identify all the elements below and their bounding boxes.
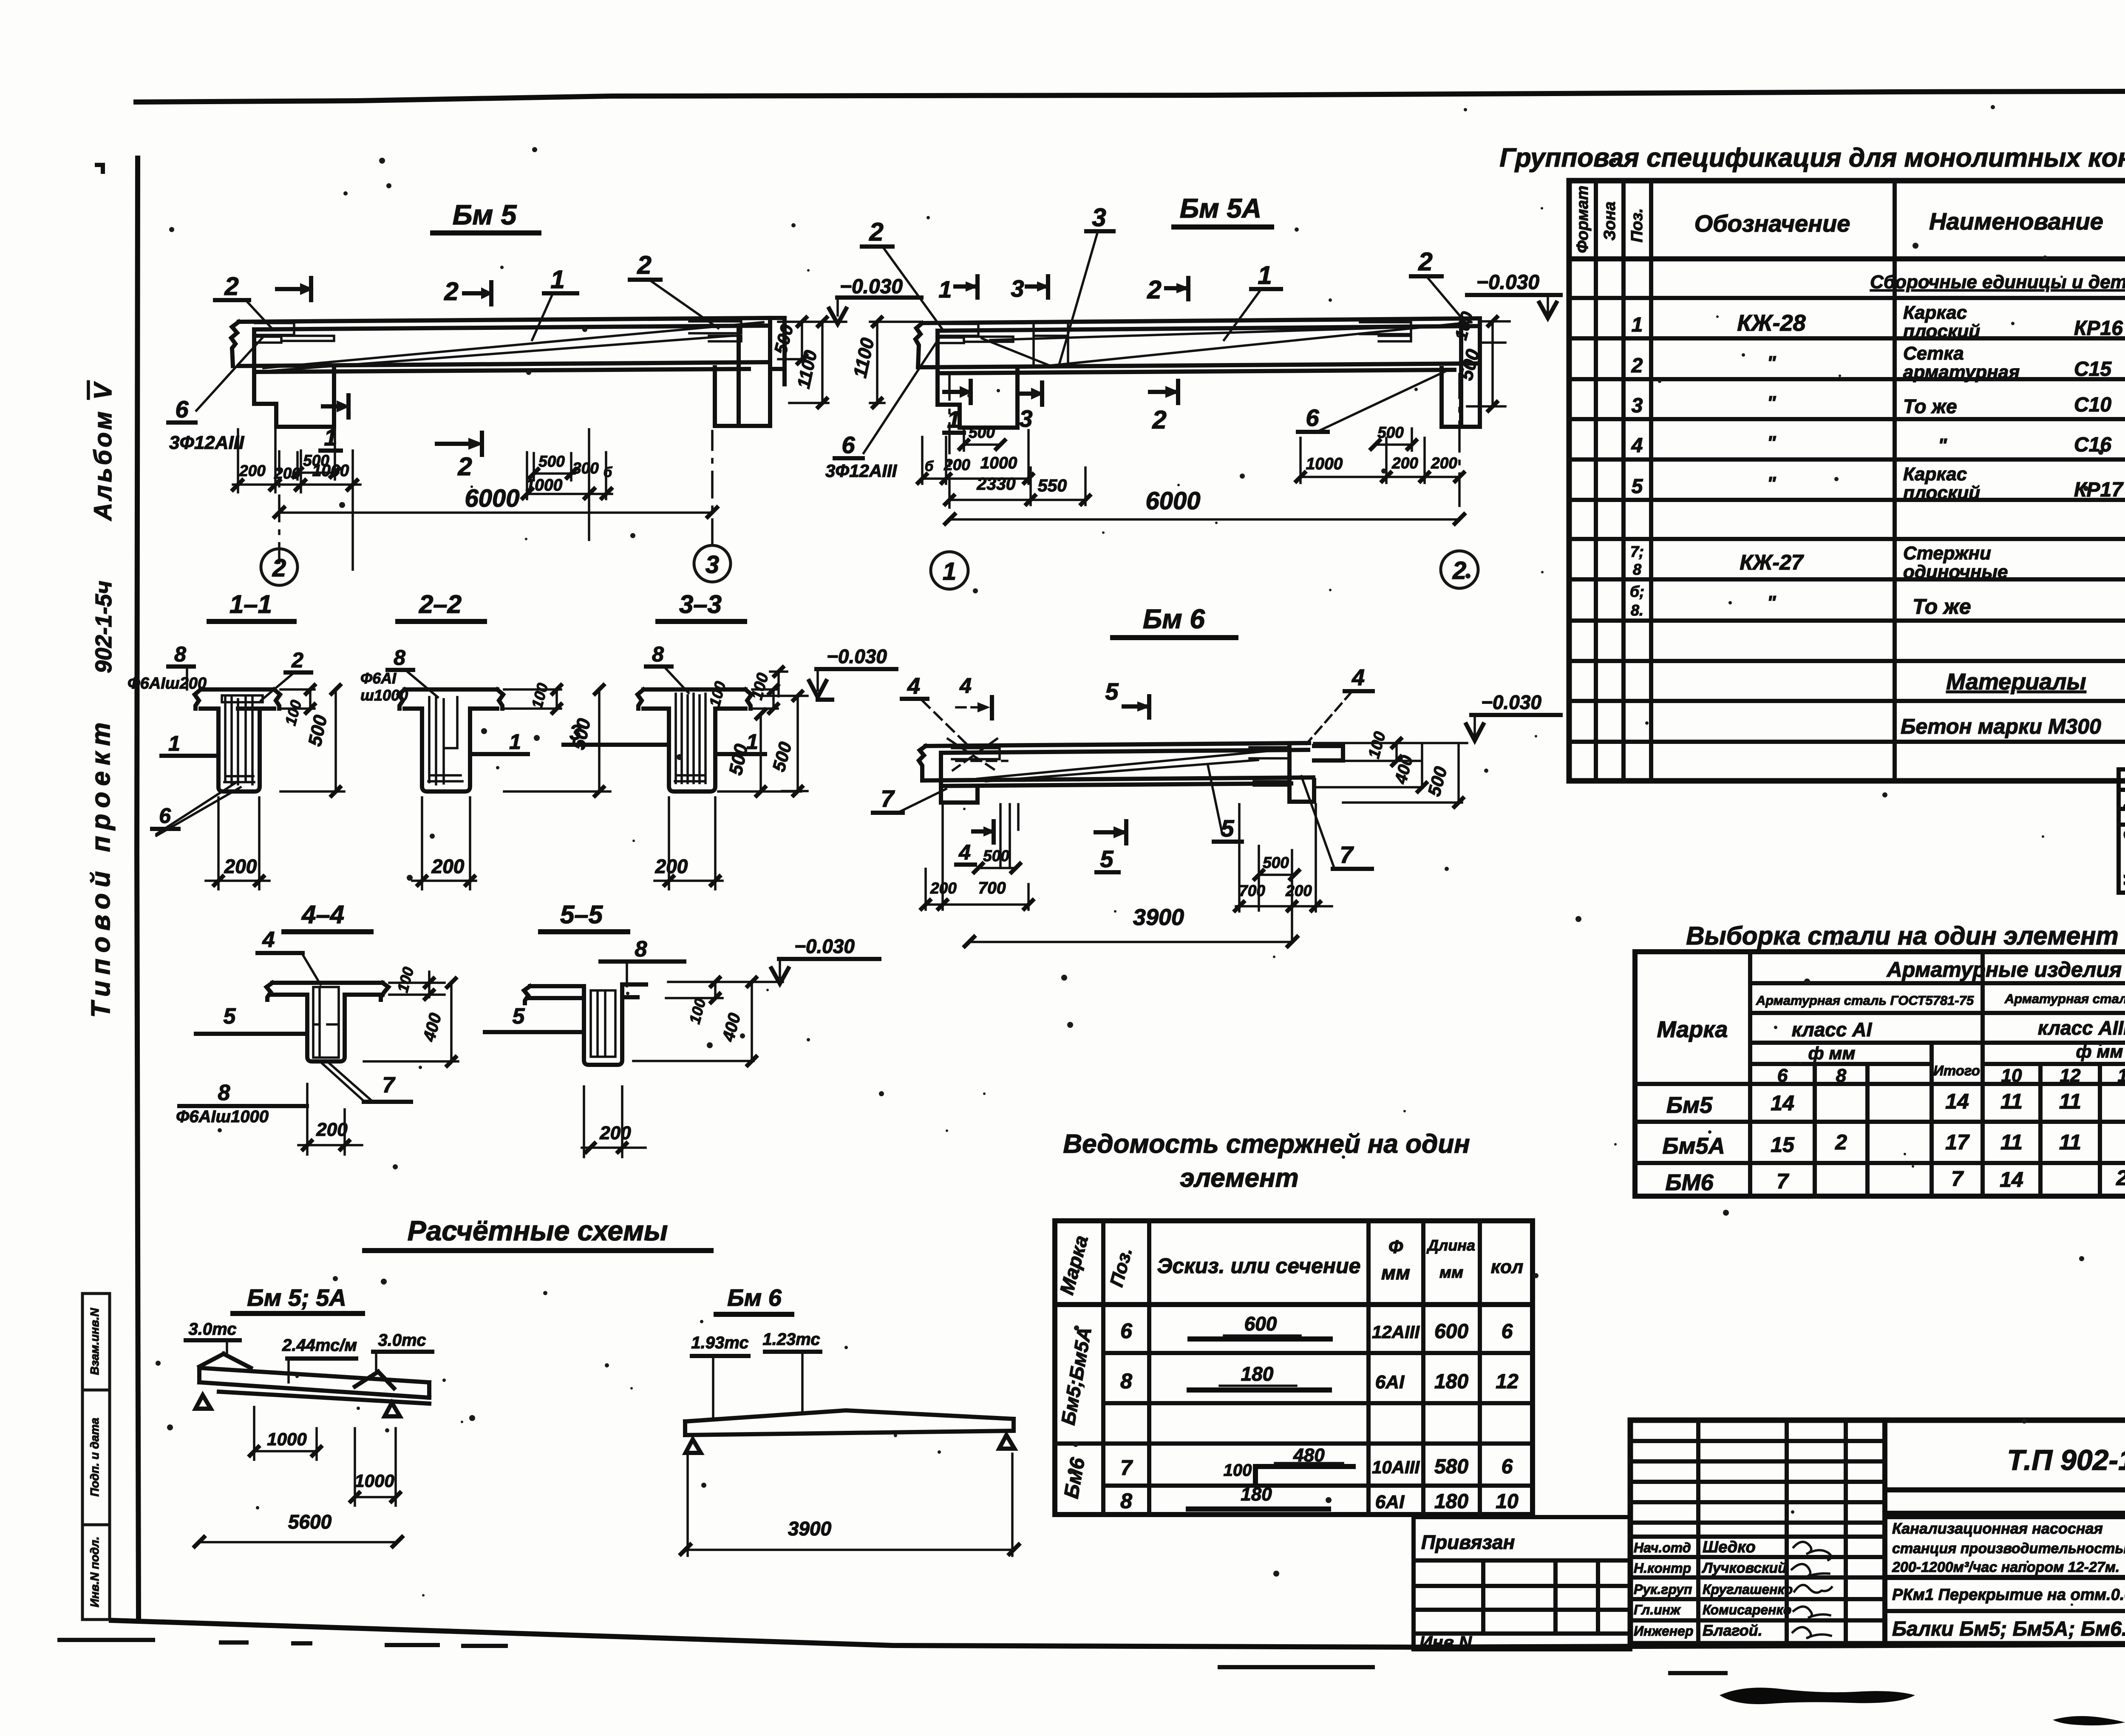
svg-text:100: 100 xyxy=(705,679,729,709)
row 6 xyxy=(1120,1313,1513,1343)
svg-text:4: 4 xyxy=(1631,434,1643,457)
SECTIONS 4-4 5-5 xyxy=(176,900,879,1157)
section arrow 1 bottom xyxy=(944,381,972,433)
row 5 xyxy=(1632,464,2125,503)
svg-text:3900: 3900 xyxy=(788,1518,832,1540)
svg-text:Формат: Формат xyxy=(1574,186,1592,253)
section arrow 2 top-left xyxy=(277,278,314,300)
load 2.44тс/м xyxy=(282,1336,357,1382)
section arrow 5 bottom xyxy=(1096,821,1128,872)
svg-text:3: 3 xyxy=(1019,405,1032,432)
svg-text:С10: С10 xyxy=(2074,394,2111,416)
svg-text:Т.П 902-1- -КЖ: Т.П 902-1- -КЖ xyxy=(2007,1444,2125,1476)
vyborka horizontals xyxy=(1635,983,2125,1163)
BEAM BM6 xyxy=(748,604,1561,946)
privyazan block border xyxy=(1414,1517,1630,1649)
svg-text:Подп. и дата: Подп. и дата xyxy=(88,1418,101,1496)
svg-text:одиночные: одиночные xyxy=(1903,562,2008,582)
svg-text:7: 7 xyxy=(1776,1169,1789,1193)
svg-text:180: 180 xyxy=(1241,1484,1272,1505)
dims 2330 550 xyxy=(945,468,1090,505)
svg-text:8: 8 xyxy=(218,1081,230,1105)
svg-text:6АI: 6АI xyxy=(1375,1372,1405,1393)
svg-text:2: 2 xyxy=(1452,557,1466,584)
svg-text:200: 200 xyxy=(431,855,465,877)
svg-text:5: 5 xyxy=(513,1004,525,1029)
signature row Инженер xyxy=(1634,1622,1831,1639)
MARGIN xyxy=(82,380,117,1620)
vedomost horizontals xyxy=(1055,1302,1533,1307)
BEAM BM5A xyxy=(770,193,1561,589)
section arrow 3 bottom xyxy=(1019,383,1044,432)
rotated dims 100 400 500 right of Бм6 xyxy=(1314,730,1467,807)
svg-text:24: 24 xyxy=(2116,1166,2125,1190)
svg-text:100: 100 xyxy=(1365,730,1389,760)
rebar 1 diagonal Бм5А xyxy=(982,322,1471,366)
beam Бм6 left support xyxy=(941,753,977,803)
spec table row lines xyxy=(1569,298,2125,742)
beam Бм5А right support xyxy=(1442,318,1480,427)
svg-text:8: 8 xyxy=(1633,561,1641,578)
svg-text:Ф6АIш200: Ф6АIш200 xyxy=(127,675,207,692)
callout 7 right xyxy=(1301,776,1372,869)
callout 7 left xyxy=(873,785,946,813)
svg-text:1.23тс: 1.23тс xyxy=(762,1330,820,1349)
svg-text:2: 2 xyxy=(1152,406,1166,434)
section 1-1 rebar xyxy=(224,697,254,784)
svg-text:2: 2 xyxy=(1835,1130,1847,1154)
svg-text:−0.030: −0.030 xyxy=(840,275,903,298)
dims 200 700 left Бм6 xyxy=(921,804,1033,910)
svg-text:8: 8 xyxy=(635,937,647,962)
svg-text:500: 500 xyxy=(1263,854,1289,871)
callout 7 section 4-4 xyxy=(364,1073,411,1102)
row 8 xyxy=(1120,1363,1519,1393)
title Бм5 xyxy=(433,199,539,233)
svg-text:Выборка стали на один эле: Выборка стали на один элемент xyxy=(1686,922,2119,950)
load 3.0тс left xyxy=(186,1320,240,1353)
svg-text:Благой.: Благой. xyxy=(1703,1622,1762,1639)
svg-text:": " xyxy=(1767,473,1776,494)
svg-text:6: 6 xyxy=(1502,1455,1513,1478)
bottom frame line xyxy=(111,1620,2125,1647)
spec table verticals xyxy=(1596,181,2125,781)
dim 200 bottom 3-3 xyxy=(654,797,722,889)
title block outer xyxy=(1630,1420,2125,1644)
section mark 2 top-left xyxy=(215,272,273,329)
svg-text:−0.030: −0.030 xyxy=(1481,691,1541,713)
svg-text:Обозначение: Обозначение xyxy=(1694,210,1850,237)
svg-text:ш1000: ш1000 xyxy=(360,686,408,704)
rebar diagonal Бм6 xyxy=(977,749,1289,781)
svg-text:200: 200 xyxy=(943,456,970,474)
section 1-1 title xyxy=(209,590,294,621)
svg-text:3: 3 xyxy=(1011,275,1024,302)
doc number cell xyxy=(1885,1444,2125,1513)
svg-text:Сборочные единицы и детали: Сборочные единицы и детали xyxy=(1870,272,2125,292)
rotated dim 1100 Бм5 right xyxy=(789,318,828,407)
svg-text:1: 1 xyxy=(168,732,180,755)
svg-text:1: 1 xyxy=(550,265,564,294)
svg-text:Комисаренко: Комисаренко xyxy=(1703,1602,1791,1617)
beam Бм5А top chord xyxy=(922,318,1480,331)
svg-text:2.44тс/м: 2.44тс/м xyxy=(282,1336,357,1355)
svg-text:РКм1 Перекрытие на отм.0.000: РКм1 Перекрытие на отм.0.000 xyxy=(1892,1586,2125,1604)
svg-text:3900: 3900 xyxy=(1133,905,1184,930)
callout 8 Ф6АIш1000 section 4-4 xyxy=(176,1081,307,1126)
svg-text:": " xyxy=(1767,432,1776,453)
svg-text:3Ф12АIII: 3Ф12АIII xyxy=(825,461,898,481)
svg-text:2: 2 xyxy=(224,272,238,301)
svg-text:Лучковский: Лучковский xyxy=(1701,1560,1787,1576)
beam Бм5 right neighbor stub xyxy=(770,318,785,384)
svg-text:100: 100 xyxy=(1224,1461,1252,1480)
svg-text:15: 15 xyxy=(1771,1133,1795,1157)
svg-text:Ф6АI: Ф6АI xyxy=(360,669,397,687)
svg-text:1: 1 xyxy=(1258,261,1272,289)
svg-text:мм: мм xyxy=(1381,1262,1410,1284)
svg-text:Групповая спецификация для мо: Групповая спецификация для монолитных ко… xyxy=(1499,143,2125,173)
beam Бм6 bottom chord xyxy=(926,777,1313,786)
svg-text:Инв.N подл.: Инв.N подл. xyxy=(88,1537,101,1607)
dims 1000 200 200 right xyxy=(1296,438,1464,483)
svg-text:Круглашенко: Круглашенко xyxy=(1703,1582,1793,1597)
svg-text:100: 100 xyxy=(281,698,305,727)
section arrow 2 bottom xyxy=(1150,381,1180,434)
dims б 200 1000 left xyxy=(918,430,1033,484)
grid line 1 xyxy=(931,374,968,589)
svg-text:Бм 6: Бм 6 xyxy=(727,1284,782,1311)
svg-text:2: 2 xyxy=(444,277,458,306)
dim 3900 xyxy=(965,905,1297,946)
level mark -0.030 right xyxy=(1467,271,1561,318)
svg-text:Бм 5А: Бм 5А xyxy=(1180,193,1261,224)
svg-text:11: 11 xyxy=(2000,1089,2023,1113)
vyborka row БМ6 xyxy=(1665,1165,2125,1195)
vedomost outer border xyxy=(1055,1221,1533,1515)
svg-text:5: 5 xyxy=(1100,845,1113,872)
svg-text:": " xyxy=(1767,392,1776,413)
callout 1 top xyxy=(532,265,577,340)
svg-text:Инв.N: Инв.N xyxy=(1419,1632,1473,1652)
svg-text:4: 4 xyxy=(907,673,920,699)
svg-text:200: 200 xyxy=(224,855,257,877)
svg-text:3.0тс: 3.0тс xyxy=(378,1331,426,1350)
svg-text:10: 10 xyxy=(1496,1490,1519,1513)
row 1 xyxy=(1632,302,2125,342)
svg-text:400: 400 xyxy=(719,1011,744,1044)
signature row Нач.отд xyxy=(1634,1538,1831,1560)
svg-text:С16: С16 xyxy=(2074,434,2111,456)
svg-text:100: 100 xyxy=(528,681,551,710)
load 1.23тс xyxy=(762,1330,820,1411)
svg-text:1100: 1100 xyxy=(850,336,878,380)
svg-text:5: 5 xyxy=(1221,815,1234,842)
svg-text:1100: 1100 xyxy=(793,349,821,390)
svg-text:5: 5 xyxy=(1105,678,1119,705)
svg-text:плоский: плоский xyxy=(1903,482,1980,503)
corner hook mark xyxy=(97,165,103,172)
svg-text:2: 2 xyxy=(291,648,303,672)
section arrow 4 top dashed xyxy=(956,674,992,718)
callout 3 top xyxy=(1059,203,1113,365)
svg-text:8.: 8. xyxy=(1631,601,1643,619)
svg-text:8: 8 xyxy=(1836,1065,1847,1086)
svg-text:Сетка: Сетка xyxy=(1903,343,1964,364)
svg-text:БМ6: БМ6 xyxy=(1665,1170,1714,1195)
svg-text:500: 500 xyxy=(770,322,797,356)
dim 500 rotated xyxy=(280,685,344,796)
callout 5 section 5-5 xyxy=(485,1004,584,1032)
marka strip grid xyxy=(2119,769,2125,893)
svg-text:6АI: 6АI xyxy=(1375,1492,1405,1512)
callout 4 top with dashed leader xyxy=(902,673,967,745)
load triangles Бм5 scheme xyxy=(199,1354,394,1388)
svg-text:200: 200 xyxy=(1431,454,1457,472)
svg-text:1: 1 xyxy=(1632,314,1643,336)
svg-text:Альбом V: Альбом V xyxy=(89,380,117,521)
beam Бм5 left break mark xyxy=(231,322,239,366)
scheme beam Бм5 xyxy=(199,1368,429,1404)
spec table outer border xyxy=(1569,181,2125,781)
vyborka row Бм5А xyxy=(1662,1126,2125,1159)
svg-text:2: 2 xyxy=(869,218,883,246)
beam Бм5 bottom chord xyxy=(239,362,770,372)
callout 6 right xyxy=(1298,371,1447,433)
svg-text:класс АI: класс АI xyxy=(1792,1018,1873,1041)
dim 500 right xyxy=(530,453,575,480)
beam Бм5А left break xyxy=(915,323,922,367)
title Бм5А xyxy=(1174,193,1272,227)
svg-text:7: 7 xyxy=(881,785,895,812)
svg-text:Бм 5; 5А: Бм 5; 5А xyxy=(247,1284,346,1311)
beam Бм6 top chord xyxy=(926,743,1309,753)
svg-text:Бм 5: Бм 5 xyxy=(453,199,517,230)
svg-text:180: 180 xyxy=(1434,1370,1468,1393)
svg-text:Ф6АIш1000: Ф6АIш1000 xyxy=(176,1107,269,1126)
BEAM BM5 xyxy=(168,199,785,585)
beam Бм5А mesh zone С10 xyxy=(1034,322,1068,367)
svg-text:Арматурные изделия: Арматурные изделия xyxy=(1886,958,2122,981)
dim 500 left Бм6 xyxy=(974,847,1020,872)
callout 2 top-left xyxy=(862,218,943,331)
dim 6000 Бм5А xyxy=(945,487,1464,524)
row 7-8 xyxy=(1630,539,2125,582)
svg-text:300: 300 xyxy=(572,460,599,477)
beam Бм5 right anchor plate xyxy=(689,321,741,341)
project name cell xyxy=(1885,1517,2125,1575)
svg-text:Расчётные схемы: Расчётные схемы xyxy=(408,1215,668,1246)
load 3.0тс right xyxy=(373,1331,432,1371)
signature row Рук.груп xyxy=(1634,1582,1832,1597)
svg-text:Марка: Марка xyxy=(1055,1233,1092,1297)
section 2-2 web xyxy=(422,709,470,791)
callout 8 section 3-3 xyxy=(646,642,688,693)
svg-text:−0.030: −0.030 xyxy=(827,645,887,667)
svg-text:902-1-5ч: 902-1-5ч xyxy=(91,581,116,673)
witness lines left support xyxy=(1000,804,1018,868)
dim 500 rotated 3-3 xyxy=(718,710,801,796)
beam Бм6 left break xyxy=(919,746,926,780)
left frame line xyxy=(137,158,139,1620)
svg-text:2: 2 xyxy=(457,452,472,481)
callout 1 section 2-2 xyxy=(470,730,528,754)
svg-text:Эскиз. или сечение: Эскиз. или сечение xyxy=(1157,1254,1361,1278)
dim 100 rotated xyxy=(280,685,314,727)
dim 500 small left xyxy=(960,424,1005,451)
svg-text:2: 2 xyxy=(1147,275,1161,304)
svg-text:2: 2 xyxy=(1418,247,1432,276)
section 2-2 title xyxy=(398,590,484,621)
svg-text:5: 5 xyxy=(224,1004,236,1029)
svg-text:Рук.груп: Рук.груп xyxy=(1634,1582,1692,1597)
svg-text:": " xyxy=(1938,435,1947,456)
vedomost verticals xyxy=(1103,1221,1480,1515)
svg-text:12: 12 xyxy=(1496,1370,1519,1393)
svg-text:11: 11 xyxy=(2059,1089,2081,1113)
svg-text:180: 180 xyxy=(1241,1363,1274,1385)
svg-text:С15: С15 xyxy=(2074,358,2112,380)
callout 1 top right xyxy=(1224,261,1281,340)
svg-text:Арматурная сталь ГОСТ5781-75: Арматурная сталь ГОСТ5781-75 xyxy=(1756,993,1974,1008)
row 8b xyxy=(1120,1484,1519,1513)
svg-text:500: 500 xyxy=(983,847,1009,865)
svg-text:7: 7 xyxy=(1951,1167,1964,1191)
svg-text:8: 8 xyxy=(1120,1369,1132,1393)
privyazan block grid xyxy=(1414,1560,1630,1634)
svg-text:станция производительностью: станция производительностью xyxy=(1892,1540,2125,1557)
svg-text:Бм 6: Бм 6 xyxy=(1143,604,1205,634)
section 3-3 flange xyxy=(637,689,751,709)
svg-text:6000: 6000 xyxy=(1145,487,1200,515)
beam Бм6 left anchor + dashed cuts xyxy=(952,748,1000,759)
dim 6000 xyxy=(275,485,717,517)
svg-text:3: 3 xyxy=(705,551,719,579)
title block left grid columns xyxy=(1698,1420,1846,1642)
svg-text:Н.контр: Н.контр xyxy=(1634,1560,1691,1576)
svg-text:1: 1 xyxy=(509,730,521,754)
dim 1000 right scheme xyxy=(351,1428,400,1506)
callout 6 3Ф12АIII xyxy=(168,338,263,453)
svg-text:6: 6 xyxy=(1502,1320,1513,1343)
SPEC TABLE xyxy=(1499,143,2125,781)
dim 100 rotated 2-2 xyxy=(504,681,561,713)
svg-text:Арматурная сталь ГОСТ5.1459-72: Арматурная сталь ГОСТ5.1459-72* xyxy=(2004,991,2125,1006)
ink smudge small xyxy=(2053,1716,2125,1725)
section 5-5 web xyxy=(584,984,622,1065)
rotated dim 1100 Бм5А left xyxy=(850,318,922,407)
svg-text:500: 500 xyxy=(538,453,565,470)
svg-text:500: 500 xyxy=(1377,424,1404,441)
svg-text:11: 11 xyxy=(2000,1130,2023,1154)
svg-text:14: 14 xyxy=(1945,1089,1969,1113)
stamp box Инв.N подл. xyxy=(82,1525,110,1620)
svg-text:Бм5: Бм5 xyxy=(1666,1092,1713,1118)
svg-text:14: 14 xyxy=(2000,1168,2023,1191)
svg-text:400: 400 xyxy=(419,1011,445,1044)
svg-text:Ф: Ф xyxy=(1388,1237,1403,1257)
svg-text:": " xyxy=(1767,352,1776,373)
dims 200 200 1000 left xyxy=(233,429,360,570)
beam Бм6 right anchor plate xyxy=(1249,747,1289,786)
section 3-3 rebar dense xyxy=(675,694,705,783)
signature row Н.контр xyxy=(1634,1560,1829,1577)
svg-text:Ведомость стержней на один: Ведомость стержней на один xyxy=(1063,1129,1470,1159)
svg-text:3.0тс: 3.0тс xyxy=(189,1320,237,1339)
svg-text:500: 500 xyxy=(768,740,796,774)
object name cells xyxy=(1885,1577,2125,1640)
svg-text:Каркас: Каркас xyxy=(1903,464,1967,485)
svg-text:Шедко: Шедко xyxy=(1703,1538,1756,1556)
MARKA STRIP xyxy=(2119,769,2125,893)
svg-text:класс АIII: класс АIII xyxy=(2038,1017,2125,1039)
svg-text:3: 3 xyxy=(1632,394,1643,417)
svg-text:Бм6: Бм6 xyxy=(1060,1456,1089,1500)
svg-text:Привязан: Привязан xyxy=(1421,1531,1515,1553)
callout 5 right xyxy=(1208,765,1242,842)
callout 2 far right xyxy=(1411,247,1465,321)
svg-text:200: 200 xyxy=(655,855,688,877)
svg-text:7;: 7; xyxy=(1630,543,1644,560)
section arrow 3 top xyxy=(1011,275,1050,302)
svg-text:1.93тс: 1.93тс xyxy=(691,1333,748,1352)
svg-text:6: 6 xyxy=(1777,1065,1788,1086)
svg-text:Наименование: Наименование xyxy=(1929,208,2103,235)
callout 1 section 3-3 xyxy=(715,730,765,754)
svg-text:мм: мм xyxy=(1439,1264,1463,1282)
callout 3 section 3-3 xyxy=(564,720,669,745)
rebar 1 diagonal xyxy=(263,322,763,371)
svg-text:Нач.отд: Нач.отд xyxy=(1634,1540,1691,1555)
svg-text:Бм5;Бм5А: Бм5;Бм5А xyxy=(1057,1325,1096,1427)
callout 8 section 2-2 xyxy=(360,646,438,704)
VYBORKA TABLE xyxy=(1635,922,2125,1196)
svg-text:10: 10 xyxy=(2001,1065,2022,1086)
grid line 2 right xyxy=(1441,374,1478,588)
grid line 2 xyxy=(261,451,297,585)
vyborka outer border xyxy=(1635,952,2125,1196)
svg-text:4–4: 4–4 xyxy=(301,900,344,929)
section 1-1 web xyxy=(218,709,260,791)
supports Бм6 scheme xyxy=(686,1435,1014,1453)
svg-text:Балки Бм5; Бм5А; Бм6.: Балки Бм5; Бм5А; Бм6. xyxy=(1892,1618,2125,1640)
svg-text:Поз.: Поз. xyxy=(1628,208,1646,243)
svg-text:500: 500 xyxy=(725,742,752,777)
row 4 xyxy=(1631,432,2125,457)
svg-text:КР17: КР17 xyxy=(2074,479,2124,501)
svg-text:4: 4 xyxy=(262,928,275,952)
svg-text:100: 100 xyxy=(686,996,709,1026)
beam Бм6 right support xyxy=(1289,747,1314,802)
svg-text:кол: кол xyxy=(1491,1257,1524,1277)
dim 500 left xyxy=(293,425,339,479)
row 3 xyxy=(1632,392,2125,417)
svg-text:5600: 5600 xyxy=(288,1511,332,1533)
row 7 xyxy=(1120,1445,1513,1483)
svg-text:ф мм: ф мм xyxy=(1808,1043,1856,1063)
dim 100 400 rotated 5-5 xyxy=(633,978,783,1065)
svg-text:1000: 1000 xyxy=(980,454,1017,472)
section 2-2 rebar xyxy=(428,697,462,784)
signature row Гл.инж xyxy=(1634,1602,1830,1618)
svg-text:700: 700 xyxy=(978,879,1006,897)
beam Бм5А left support xyxy=(938,331,1017,428)
callout 2 top-right xyxy=(630,251,718,328)
section arrow 2 top-mid xyxy=(444,277,493,306)
dim 3900 scheme xyxy=(681,1454,1019,1556)
svg-text:Взам.инв.N: Взам.инв.N xyxy=(88,1308,101,1375)
title block left grid rows xyxy=(1630,1441,1885,1620)
